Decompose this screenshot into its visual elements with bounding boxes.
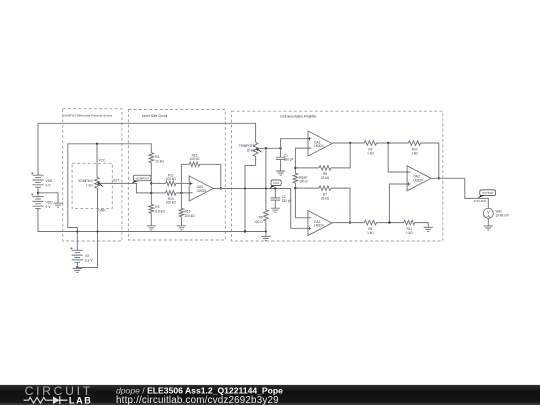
- svg-text:LM324: LM324: [413, 178, 423, 182]
- op-amp OA2 input marks: [308, 216, 311, 230]
- wire OA1 output row: [332, 142, 364, 144]
- op-amp OA3 LM324: [407, 166, 431, 191]
- wire OA3 output to voltmeter: [431, 178, 488, 208]
- svg-text:10 kΩ: 10 kΩ: [155, 159, 164, 163]
- svg-text:19.48 mV: 19.48 mV: [495, 214, 509, 218]
- wire VCC branch to battery V3 +: [68, 228, 78, 251]
- svg-text:OA4: OA4: [273, 181, 279, 185]
- wire OA1 minus input to Rgain top: [295, 148, 308, 173]
- dashed box: XGMP3v3 Differential Pressure Sensor region: [63, 109, 122, 241]
- svg-text:XGMP3v3: XGMP3v3: [78, 179, 93, 183]
- wire wiper to C1 node: [259, 147, 281, 149]
- svg-text:R2: R2: [155, 155, 159, 159]
- wire R8 left lead: [295, 167, 319, 169]
- ground below V3: [73, 268, 82, 272]
- wire R9 to R10 row: [377, 142, 409, 144]
- wire R7 left lead: [295, 187, 319, 189]
- node TRIMPOT1 rail junction: [244, 230, 246, 232]
- resistor Rgain: [293, 173, 298, 183]
- capacitor C1: [276, 157, 286, 159]
- svg-text:Instrumentation Amplifier: Instrumentation Amplifier: [280, 115, 317, 119]
- potentiometer TRIMPOT1 body: [253, 142, 258, 156]
- wire R8 right to OA1 output: [331, 143, 350, 168]
- node divider/plus-input junction: [150, 182, 152, 184]
- wire R14 to OA4 minus input: [176, 192, 189, 194]
- flag OA4 net label: [271, 180, 281, 186]
- dashed box: sensor inner boundary: [72, 163, 112, 208]
- wire OUT from wiper to level-shift input: [100, 183, 151, 193]
- wire Rgain bottom to OA2 minus input: [295, 183, 308, 218]
- node OA2 output junction: [349, 221, 351, 223]
- svg-text:LAB: LAB: [69, 396, 93, 405]
- svg-text:http://circuitlab.com/cvdz2692: http://circuitlab.com/cvdz2692b3y29: [116, 395, 279, 405]
- node Rgain/R7 junction: [294, 187, 296, 189]
- resistor R13: [189, 162, 199, 167]
- svg-text:100 kΩ: 100 kΩ: [189, 157, 200, 161]
- svg-text:100 kΩ: 100 kΩ: [185, 214, 196, 218]
- svg-text:9 V: 9 V: [46, 205, 52, 209]
- svg-text:TRIMPOT1: TRIMPOT1: [239, 144, 255, 148]
- svg-text:Level Shift Circuit: Level Shift Circuit: [142, 114, 168, 118]
- voltmeter VM1: [483, 208, 493, 218]
- wire minus input row to R14: [151, 192, 165, 194]
- wire OA2 output row: [332, 222, 364, 224]
- ground below VM1: [484, 226, 493, 230]
- svg-text:1 kΩ: 1 kΩ: [411, 151, 418, 155]
- wire feedback riser to R13: [181, 164, 189, 193]
- battery VSS: [32, 175, 43, 187]
- wire VM1 to ground: [487, 218, 489, 226]
- wire VDD- to bottom -9V rail: [38, 209, 266, 232]
- svg-text:100 kΩ: 100 kΩ: [166, 200, 177, 204]
- resistor R14: [166, 191, 176, 196]
- svg-text:6.8 kΩ: 6.8 kΩ: [155, 209, 165, 213]
- wire R13 to OA4 output: [200, 164, 221, 188]
- ground below C1: [276, 171, 285, 175]
- wire plus input row to R12: [151, 182, 165, 184]
- svg-text:0-5V ADC: 0-5V ADC: [474, 199, 487, 203]
- svg-text:33 kΩ: 33 kΩ: [321, 176, 330, 180]
- svg-text:OUT: OUT: [113, 179, 120, 183]
- svg-text:1 kΩ: 1 kΩ: [406, 231, 413, 235]
- resistor R5: [364, 220, 376, 225]
- ground below C2: [271, 208, 280, 212]
- node OA1 output junction: [349, 142, 351, 144]
- wire V3- to sensor GND pin: [77, 188, 97, 267]
- svg-text:GND: GND: [98, 208, 106, 212]
- node C2 junction on OA4 net: [274, 187, 276, 189]
- wire R6 bottom across rail to ground: [265, 221, 267, 236]
- wire VCC down to sensor pot top: [96, 144, 98, 178]
- node C1 junction: [279, 147, 281, 149]
- svg-text:LM324: LM324: [314, 224, 324, 228]
- wire OA4 output net to OA2 plus input: [213, 189, 308, 229]
- resistor R6: [264, 210, 269, 221]
- flag XGMP3v3 net label: [134, 175, 151, 181]
- capacitor C2: [271, 198, 281, 200]
- battery V3: [72, 250, 83, 262]
- svg-text:dpope / ELE3506 Ass1.2_Q122114: dpope / ELE3506 Ass1.2_Q1221144_Pope: [116, 386, 283, 396]
- ground at battery midpoint: [53, 203, 62, 207]
- op-amp OA2 LM324: [308, 211, 332, 236]
- potentiometer XGMP3v3 body: [95, 177, 100, 188]
- node wiper/R6 junction: [265, 147, 267, 149]
- svg-text:VDD: VDD: [46, 200, 54, 204]
- wire R6 column top: [265, 148, 267, 210]
- junction blob at R6 line OA4-net crossing: [265, 188, 267, 190]
- svg-text:R15: R15: [185, 209, 191, 213]
- CircuitLab logo resistor symbol: [24, 397, 53, 403]
- resistor R11: [404, 220, 415, 225]
- node VCC junction to sensor: [96, 143, 98, 145]
- potentiometer TRIMPOT1 wiper arrow: [257, 149, 261, 152]
- flag OUTPUT net label: [480, 190, 496, 196]
- svg-text:OUTPUT: OUTPUT: [482, 191, 494, 195]
- battery VDD: [32, 197, 43, 209]
- ground below R11: [424, 227, 433, 231]
- svg-text:LM324: LM324: [197, 189, 207, 193]
- node R10/output junction: [438, 177, 440, 179]
- wire C2 top lead: [274, 189, 276, 198]
- op-amp OA4 input marks: [189, 182, 192, 193]
- svg-text:10 kΩ: 10 kΩ: [246, 148, 255, 152]
- dashed box: Level Shift Circuit region: [128, 110, 225, 241]
- wire C1 bottom lead: [280, 160, 282, 172]
- svg-text:V: V: [487, 209, 490, 214]
- svg-text:9 V: 9 V: [46, 183, 52, 187]
- svg-text:330 pF: 330 pF: [284, 157, 294, 161]
- wire C1 top lead: [280, 148, 282, 157]
- node divider/minus-input junction: [150, 192, 152, 194]
- op-amp OA1 input marks: [308, 137, 311, 148]
- resistor R3: [149, 204, 154, 213]
- dashed box: Instrumentation Amplifier region: [232, 111, 443, 241]
- junction blob at V3+ rail crossing: [76, 231, 78, 233]
- wire R15 to ground: [180, 217, 182, 226]
- node OA4 output/feedback junction: [220, 187, 222, 189]
- node V3 negative junction: [76, 266, 78, 268]
- wire battery midpoint to ground: [38, 193, 58, 203]
- resistor R12: [166, 181, 176, 186]
- resistor R10: [408, 141, 420, 146]
- svg-text:V3: V3: [85, 254, 89, 258]
- svg-text:R3: R3: [155, 205, 159, 209]
- wire V3- to junction: [76, 262, 78, 267]
- svg-text:XGMP3v3 Differential Pressure: XGMP3v3 Differential Pressure Sensor: [63, 113, 112, 117]
- wire between VSS- and VDD+: [37, 187, 39, 196]
- svg-text:120 Ω: 120 Ω: [254, 220, 263, 224]
- ground below R15: [177, 226, 186, 230]
- svg-text:VSS: VSS: [46, 179, 53, 183]
- node R5/R11/OA3-plus junction: [388, 221, 390, 223]
- svg-text:100 kΩ: 100 kΩ: [166, 177, 177, 181]
- svg-text:R6: R6: [259, 215, 263, 219]
- wire R15 top: [180, 193, 182, 208]
- wire OA3 plus input riser: [389, 184, 407, 223]
- wire R11 right to ground: [415, 223, 428, 228]
- junction blob at R6 rail crossing: [265, 231, 267, 233]
- svg-text:1 kΩ: 1 kΩ: [86, 183, 93, 187]
- svg-text:100 Ω: 100 Ω: [299, 180, 308, 184]
- node R13/R15 junction on minus line: [180, 192, 182, 194]
- resistor R8: [319, 166, 331, 171]
- svg-text:1 kΩ: 1 kΩ: [367, 231, 374, 235]
- wire R5 to R11 row: [377, 222, 404, 224]
- svg-text:1 kΩ: 1 kΩ: [367, 151, 374, 155]
- ground below R6: [261, 236, 270, 240]
- svg-text:LM324: LM324: [314, 144, 324, 148]
- resistor R15: [179, 208, 184, 216]
- resistor R7: [319, 186, 331, 191]
- svg-text:3.3 V: 3.3 V: [85, 258, 93, 262]
- potentiometer XGMP3v3 wiper arrow: [99, 183, 103, 186]
- wire R12 to OA4 plus input: [176, 182, 189, 184]
- wire R2 bottom to divider node: [150, 163, 152, 205]
- wire VCC net vertical + horizontal to R2: [68, 144, 152, 228]
- wire C1 node up-over to OA1 plus input: [281, 139, 308, 149]
- resistor R9: [364, 141, 376, 146]
- svg-text:VCC: VCC: [98, 158, 105, 162]
- wire +9V rail from VSS top across to TRIMPOT1 top: [38, 123, 256, 175]
- op-amp OA3 input marks: [407, 172, 410, 186]
- svg-text:33 kΩ: 33 kΩ: [321, 196, 330, 200]
- node: battery midpoint junction: [37, 192, 39, 194]
- op-amp OA1 LM324: [308, 131, 332, 156]
- node R8 left junction: [294, 167, 296, 169]
- wire TRIMPOT1 bottom to -9V rail: [245, 157, 256, 232]
- node R9/R10/OA3-minus junction: [387, 142, 389, 144]
- junction blob at sensor GND rail crossing: [97, 231, 99, 233]
- resistor R2: [149, 153, 154, 163]
- wire C2 bottom lead: [274, 200, 276, 208]
- op-amp OA4 LM324: [189, 176, 213, 201]
- svg-text:XGMP3v3: XGMP3v3: [136, 176, 149, 180]
- CircuitLab logo diode symbol: [53, 396, 60, 404]
- svg-text:330 pF: 330 pF: [282, 199, 292, 203]
- wire R7 right to OA2 output: [331, 188, 350, 223]
- wire R3 to ground: [150, 213, 152, 226]
- wire R10 right to output node: [421, 143, 439, 178]
- wire OA3 minus input riser: [388, 143, 407, 172]
- junction blob at trimpot line OA4-net crossing: [244, 188, 246, 190]
- ground below R3: [147, 226, 156, 230]
